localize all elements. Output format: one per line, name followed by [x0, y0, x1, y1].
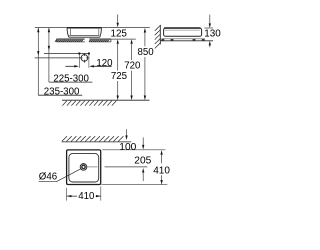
svg-text:410: 410 — [78, 191, 95, 202]
supply connection dot right — [88, 52, 90, 54]
wall line with hatching (right view) — [155, 25, 161, 49]
label 225-300 — [49, 73, 93, 84]
mounting brackets — [161, 39, 205, 41]
svg-text:Ø46: Ø46 — [39, 172, 57, 183]
plan wall line with hatching — [62, 136, 131, 142]
svg-text:125: 125 — [110, 28, 127, 39]
svg-text:720: 720 — [124, 61, 141, 72]
countertop hatched strip with drain hole — [55, 39, 111, 42]
svg-text:850: 850 — [138, 47, 155, 58]
dimension 720 line — [124, 39, 141, 100]
drain trap line — [35, 57, 82, 59]
svg-text:725: 725 — [111, 71, 127, 82]
svg-text:120: 120 — [96, 58, 113, 69]
floor line with hatching — [62, 100, 150, 105]
drain plan — [80, 164, 97, 171]
svg-text:410: 410 — [153, 166, 170, 177]
dimension 130 — [204, 15, 221, 48]
dimension 120 — [65, 55, 113, 70]
label O46 with leader — [39, 169, 81, 183]
supply connection dot left — [78, 52, 80, 54]
svg-text:205: 205 — [134, 155, 151, 166]
dimension 225-300 vertical line — [48, 28, 50, 83]
label 235-300 — [38, 86, 82, 97]
dimension 205 — [134, 155, 151, 181]
shelf/base line — [160, 40, 213, 42]
dimension 850 line — [138, 28, 155, 100]
dimension 125 / 725 line — [110, 14, 127, 100]
drain circle with crosshair — [80, 53, 90, 63]
dimension 410 bottom — [67, 186, 101, 202]
basin plan view inner square — [69, 154, 99, 182]
dimension 100 — [119, 129, 144, 153]
basin plan view outer square — [67, 150, 101, 185]
front edge extension line — [102, 149, 165, 151]
rim extension line (left+right views) — [35, 27, 150, 29]
basin front view — [164, 28, 202, 36]
dimension 235-300 vertical line — [37, 28, 39, 96]
counter extension line — [111, 38, 136, 40]
dimension 410 right — [153, 150, 170, 185]
svg-text:100: 100 — [119, 142, 136, 153]
bottom edge extension line — [102, 184, 168, 186]
drain centre extension line — [105, 166, 148, 168]
supply connection line — [44, 53, 89, 55]
svg-text:235-300: 235-300 — [44, 86, 80, 97]
svg-text:225-300: 225-300 — [53, 73, 89, 84]
basin side view (on counter) — [67, 28, 102, 38]
svg-text:130: 130 — [204, 29, 221, 40]
